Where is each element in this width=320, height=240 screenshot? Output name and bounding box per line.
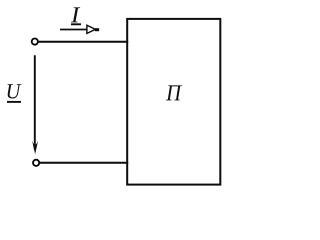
terminal (bottom): [33, 160, 39, 166]
voltage arrow line: [34, 55, 36, 149]
underline of I: [71, 23, 81, 25]
current arrow tip dash: [95, 28, 99, 31]
underline of U: [7, 101, 21, 103]
terminal (top): [32, 39, 38, 45]
wire (top): [38, 41, 128, 43]
load box П (receiver): [127, 19, 220, 185]
wire (bottom): [40, 162, 129, 164]
voltage arrowhead: [32, 141, 38, 154]
current arrow shaft: [60, 29, 87, 31]
current arrow open head: [87, 25, 96, 33]
label П: [166, 85, 182, 100]
label I: [71, 7, 80, 22]
label U: [8, 84, 22, 98]
